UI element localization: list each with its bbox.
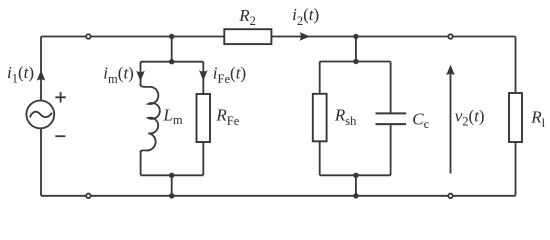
- junction dot bottom shunt: [353, 193, 358, 198]
- junction dot loop bottom shunt: [353, 173, 358, 178]
- svg-text:i1(t): i1(t): [7, 63, 34, 86]
- node terminal bottom left: [86, 194, 91, 199]
- resistor Rsh: [313, 94, 327, 142]
- wire loop bottom Lm-RFe: [141, 174, 204, 176]
- minus sign: [55, 135, 65, 137]
- wire top right of R2: [271, 36, 515, 38]
- svg-text:Cc: Cc: [412, 109, 429, 130]
- resistor R2: [224, 29, 271, 44]
- resistor RFe: [197, 94, 211, 142]
- source V1: [26, 101, 54, 129]
- svg-text:RFe: RFe: [215, 106, 239, 129]
- node terminal bottom right: [448, 194, 453, 199]
- svg-text:Rsh: Rsh: [334, 105, 357, 128]
- plus sign: [55, 92, 65, 102]
- wire loop bottom Rsh-Cc: [320, 174, 391, 176]
- capacitor Cc: [376, 113, 407, 124]
- wire RFe branch lower: [202, 142, 204, 175]
- svg-text:v2(t): v2(t): [455, 107, 485, 129]
- wire left vertical lower: [40, 128, 42, 196]
- wire split Lm-RFe: [141, 61, 204, 63]
- wire Lm branch upper: [140, 62, 142, 86]
- wire middle ground drop: [171, 175, 173, 196]
- wire Rsh branch upper: [319, 62, 321, 94]
- svg-text:im(t): im(t): [103, 63, 134, 86]
- svg-text:Lm: Lm: [162, 105, 182, 127]
- arrow iFe down: [199, 70, 208, 81]
- wire right vertical upper: [515, 37, 517, 94]
- wire Rsh branch lower: [319, 141, 321, 175]
- arrow v2 up: [446, 65, 455, 174]
- arrow i2 right: [300, 32, 311, 41]
- wire Cc branch lower: [390, 125, 392, 175]
- junction dot split middle: [169, 59, 174, 64]
- wire middle drop from top node: [171, 37, 173, 62]
- svg-text:iFe(t): iFe(t): [213, 63, 246, 86]
- wire top middle segment: [91, 36, 224, 38]
- svg-text:i2(t): i2(t): [292, 5, 319, 28]
- wire left vertical upper: [40, 37, 42, 101]
- junction dot loop bottom middle: [169, 173, 174, 178]
- wire split Rsh-Cc: [320, 61, 391, 63]
- node terminal top left: [86, 34, 91, 39]
- arrow i1 up: [37, 70, 46, 81]
- wire right vertical lower: [515, 142, 517, 196]
- wire Cc branch upper: [390, 62, 392, 113]
- inductor Lm: [141, 84, 160, 153]
- resistor Rl: [509, 93, 522, 142]
- arrow im down: [136, 71, 145, 82]
- node terminal top right: [448, 34, 453, 39]
- junction dot top middle: [169, 34, 174, 39]
- wire shunt drop from top node: [355, 37, 357, 62]
- wire Lm branch lower: [140, 150, 142, 175]
- junction dot top shunt: [353, 34, 358, 39]
- junction dot split shunt: [353, 59, 358, 64]
- wire bottom: [41, 195, 516, 197]
- wire shunt ground drop: [355, 175, 357, 196]
- svg-text:Rl: Rl: [530, 107, 545, 130]
- junction dot bottom middle: [169, 193, 174, 198]
- wire RFe branch upper: [202, 62, 204, 94]
- wire top left segment: [41, 36, 86, 38]
- svg-text:R2: R2: [238, 6, 256, 28]
